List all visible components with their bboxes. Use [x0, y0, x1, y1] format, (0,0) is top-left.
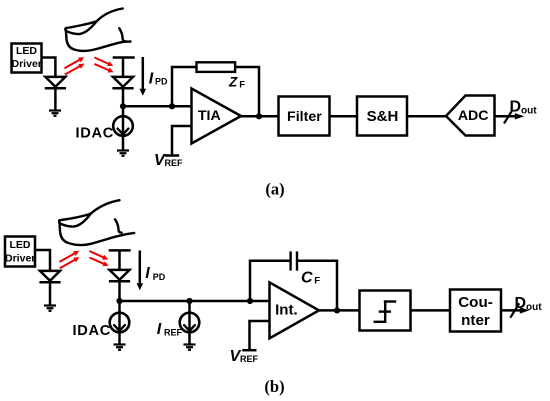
block Filter (a) — [279, 97, 330, 136]
svg-text:IDAC: IDAC — [73, 323, 111, 339]
svg-text:out: out — [521, 106, 537, 117]
VREF reference bar (a) — [165, 154, 179, 157]
wire summing node to TIA input (a) — [123, 105, 192, 108]
bus slash on Dout wire (a) — [504, 110, 513, 124]
svg-text:F: F — [314, 276, 320, 287]
wire TIA output to Filter (a) — [241, 115, 279, 118]
svg-text:I: I — [157, 321, 162, 338]
svg-text:REF: REF — [240, 354, 259, 364]
node: feedback tap (a) — [169, 103, 175, 109]
wire S&H to ADC (a) — [407, 115, 446, 118]
node: IREF tap junction (b) — [186, 298, 192, 304]
block LED Driver (a) — [12, 44, 42, 73]
red light arrows finger to photodiode (b) — [89, 251, 108, 266]
wire resistor to TIA output node (a) — [235, 67, 259, 116]
node: integrator input / feedback tap (b) — [247, 298, 253, 304]
svg-text:C: C — [301, 269, 313, 286]
svg-text:Filter: Filter — [287, 109, 322, 125]
ground below IDAC (b) — [114, 345, 126, 350]
svg-text:Driver: Driver — [12, 58, 42, 70]
wire feedback tap up to capacitor (b) — [250, 261, 291, 301]
svg-text:D: D — [515, 295, 527, 312]
label VREF (a) — [154, 152, 183, 169]
svg-text:PD: PD — [155, 77, 168, 87]
wire integrator output to comparator (b) — [319, 309, 360, 312]
label CF (b) — [301, 269, 320, 286]
wire VREF to TIA reference input (a) — [172, 126, 192, 154]
svg-text:Int.: Int. — [275, 302, 298, 319]
photodiode D2 (a) — [112, 77, 133, 88]
supply rail bar above photodiode (b) — [109, 249, 131, 252]
photodiode D4 (b) — [109, 270, 130, 281]
IDAC current source (a) — [76, 106, 133, 150]
wire capacitor to integrator output node (b) — [297, 261, 337, 311]
svg-text:out: out — [526, 302, 542, 313]
op-amp integrator U2 (b) — [270, 282, 320, 338]
LED D1 (a) — [45, 77, 66, 111]
svg-text:D: D — [510, 99, 522, 116]
svg-text:Cou-: Cou- — [458, 294, 493, 311]
IREF current source (b) — [157, 301, 200, 345]
ground below LED (b) — [44, 306, 56, 311]
wire summing node to integrator input (b) — [120, 300, 270, 303]
svg-text:IDAC: IDAC — [76, 126, 114, 142]
wire photodiode to summing node (a) — [122, 88, 125, 106]
ADC block (a) — [446, 96, 495, 136]
svg-text:(a): (a) — [265, 180, 284, 199]
svg-text:I: I — [145, 265, 150, 282]
wire Counter to Dout with arrowhead (b) — [501, 307, 529, 313]
current arrow IPD (b) — [137, 251, 166, 291]
label Dout (b) — [515, 295, 543, 313]
wire feedback tap up to resistor (a) — [172, 67, 197, 106]
label ZF (a) — [228, 74, 245, 90]
svg-text:LED: LED — [16, 45, 37, 57]
svg-text:Z: Z — [228, 74, 238, 89]
bus slash on Dout wire (b) — [510, 303, 519, 317]
block S&H (a) — [357, 97, 407, 136]
capacitor CF (b) — [291, 251, 297, 270]
current arrow IPD (a) — [140, 57, 169, 96]
node: photodiode / IDAC junction (b) — [116, 298, 122, 304]
svg-text:S&H: S&H — [367, 108, 399, 125]
svg-text:REF: REF — [165, 158, 184, 168]
wire LED Driver output to LED anode (b) — [35, 250, 50, 271]
svg-text:F: F — [239, 80, 245, 91]
wire photodiode to summing node (b) — [118, 281, 121, 301]
wire rail to photodiode (b) — [118, 250, 121, 270]
svg-text:LED: LED — [10, 239, 31, 251]
red light arrows finger to photodiode (a) — [94, 57, 113, 72]
VREF reference bar (b) — [242, 349, 256, 352]
svg-text:REF: REF — [164, 328, 183, 338]
finger touching sensor (b) — [59, 200, 134, 245]
wire LED Driver output to LED anode (a) — [42, 58, 56, 77]
svg-text:ADC: ADC — [458, 108, 489, 124]
LED D3 (b) — [39, 271, 60, 306]
svg-text:nter: nter — [461, 312, 490, 329]
resistor ZF (a) — [197, 62, 236, 72]
node: photodiode / IDAC junction (a) — [120, 103, 126, 109]
svg-text:(b): (b) — [264, 377, 284, 396]
comparator with hysteresis block (b) — [360, 291, 411, 331]
svg-text:PD: PD — [153, 272, 166, 282]
wire rail to photodiode (a) — [122, 58, 125, 77]
supply rail bar above photodiode (a) — [113, 56, 135, 59]
IDAC current source (b) — [73, 301, 130, 345]
block LED Driver (b) — [5, 237, 35, 267]
finger touching sensor (a) — [65, 9, 130, 51]
wire VREF to integrator reference input (b) — [250, 321, 270, 349]
block Counter (b) — [450, 290, 501, 332]
wire Filter to S&H (a) — [330, 115, 358, 118]
node: TIA output / feedback junction (a) — [256, 113, 262, 119]
ground below IREF (b) — [184, 345, 196, 350]
label Dout (a) — [510, 99, 538, 117]
wire comparator to Counter (b) — [411, 309, 451, 312]
red light arrows LED to finger (b) — [60, 251, 80, 268]
ground below IDAC (a) — [117, 151, 129, 156]
svg-text:TIA: TIA — [198, 108, 221, 124]
svg-text:Driver: Driver — [5, 252, 35, 264]
node: integrator output / feedback junction (b) — [334, 307, 340, 313]
ground below LED (a) — [49, 111, 61, 116]
red light arrows LED to finger (a) — [65, 57, 85, 74]
wire ADC to Dout with arrowhead (a) — [495, 113, 525, 119]
op-amp TIA U1 (a) — [192, 89, 242, 144]
svg-text:I: I — [149, 71, 154, 88]
label VREF (b) — [230, 348, 259, 365]
